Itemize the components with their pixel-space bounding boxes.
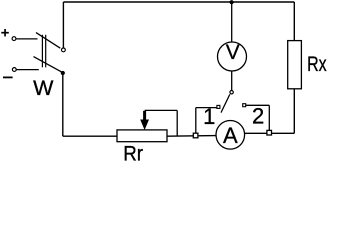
wire voltmeter lower: [231, 71, 233, 90]
wire left rail upper: [62, 2, 64, 48]
wire right rail lower: [293, 89, 295, 134]
wire wiper top horizontal: [145, 109, 178, 111]
resistor Rx: [288, 41, 302, 89]
node junction on top rail: [230, 0, 234, 4]
battery positive terminal: [12, 37, 16, 41]
battery negative terminal: [12, 68, 16, 72]
wire contact 1 vertical: [195, 108, 197, 134]
selector contact 1: [217, 105, 220, 108]
wire contact 2 vertical: [268, 105, 270, 130]
switch W bottom contact junction: [61, 71, 65, 75]
wire contact 2 horizontal: [246, 104, 270, 106]
selector blade: [221, 94, 230, 112]
svg-text:Rx: Rx: [307, 52, 327, 76]
svg-text:W: W: [33, 76, 54, 100]
wire bottom right segment: [245, 132, 295, 134]
wire bottom left segment: [63, 135, 117, 137]
wire from positive terminal: [16, 38, 37, 40]
switch W bottom blade: [34, 57, 62, 72]
switch W coupling bar: [42, 35, 45, 68]
rheostat Rr wiper arrow: [140, 111, 149, 130]
svg-text:Rr: Rr: [123, 142, 143, 166]
wire right rail upper: [293, 2, 295, 41]
wire bottom middle segment: [167, 135, 216, 138]
label +: [1, 29, 9, 36]
wire contact 1 horizontal: [196, 107, 217, 109]
rheostat Rr body: [117, 130, 167, 142]
svg-text:A: A: [223, 123, 238, 148]
node junction 2: [267, 130, 272, 135]
label -: [3, 76, 13, 78]
ammeter A: [216, 121, 245, 150]
switch W top blade: [36, 33, 60, 49]
selector contact 2: [243, 104, 246, 107]
wire left rail lower: [62, 73, 64, 136]
wire voltmeter upper: [231, 2, 233, 42]
switch W top contact: [62, 48, 66, 52]
voltmeter V: [218, 41, 247, 71]
svg-text:V: V: [226, 41, 240, 64]
selector pivot: [230, 91, 233, 94]
svg-text:2: 2: [252, 103, 264, 128]
wire from negative terminal: [17, 69, 39, 71]
node junction 1: [193, 133, 198, 138]
wire top rail: [63, 1, 294, 3]
wire wiper down: [176, 110, 178, 135]
